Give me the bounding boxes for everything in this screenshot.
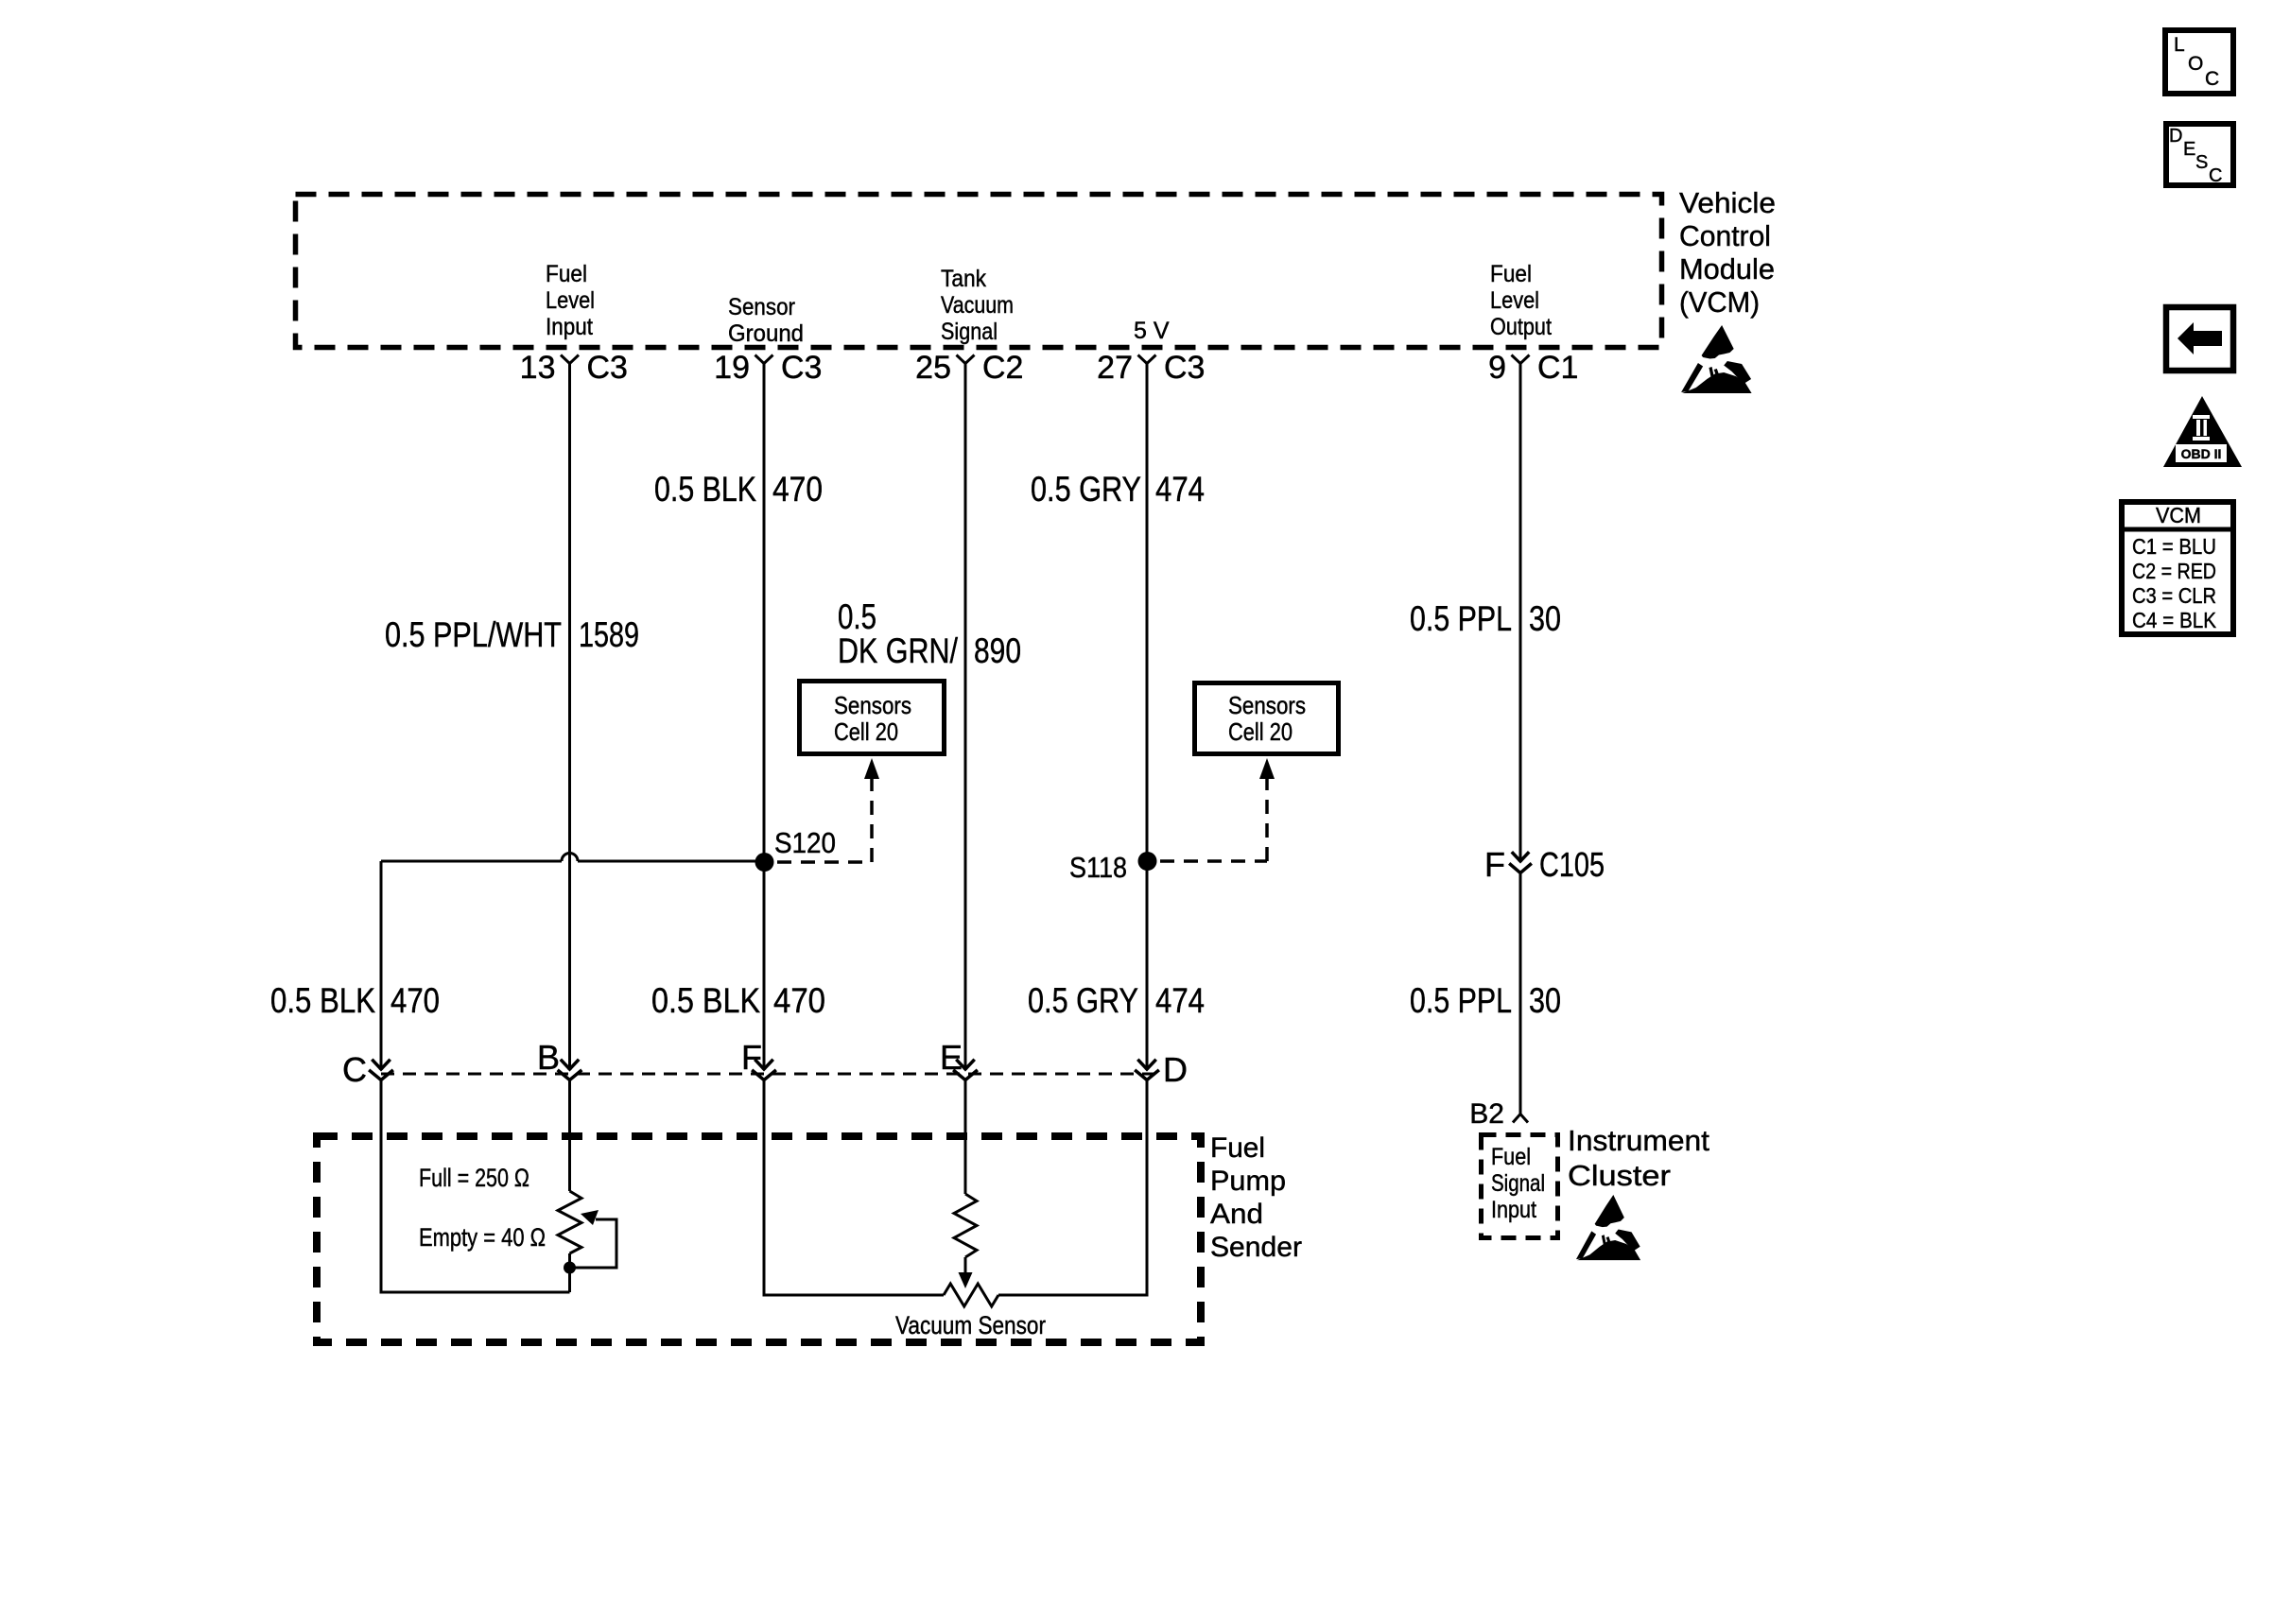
svg-text:470: 470 bbox=[390, 981, 440, 1020]
wire fuel level input 1589 upper segment bbox=[568, 363, 571, 1067]
svg-text:Sensors: Sensors bbox=[834, 691, 911, 719]
connector pin E bbox=[940, 1038, 977, 1080]
svg-text:F: F bbox=[1484, 845, 1505, 884]
label Sensor Ground (pin 19 port) bbox=[728, 294, 804, 347]
svg-text:0.5 PPL/WHT: 0.5 PPL/WHT bbox=[385, 615, 562, 654]
svg-text:C105: C105 bbox=[1539, 845, 1605, 884]
wire tank vacuum signal 890 upper segment bbox=[964, 363, 967, 1067]
svg-text:Module: Module bbox=[1679, 252, 1775, 285]
svg-text:C1 = BLU: C1 = BLU bbox=[2132, 534, 2216, 559]
label Vehicle Control Module (VCM) bbox=[1679, 186, 1776, 319]
wire 5V 474 upper segment bbox=[1146, 363, 1149, 1067]
svg-text:Input: Input bbox=[546, 314, 593, 340]
wire E leg into pump box bbox=[964, 1079, 967, 1194]
VCM connector color table bbox=[2119, 502, 2236, 634]
ESD symbol at VCM bbox=[1681, 325, 1752, 393]
svg-text:13: 13 bbox=[520, 350, 556, 386]
svg-text:0.5 GRY: 0.5 GRY bbox=[1028, 981, 1138, 1020]
svg-text:(VCM): (VCM) bbox=[1679, 285, 1760, 319]
svg-text:VCM: VCM bbox=[2156, 503, 2201, 527]
svg-text:Sender: Sender bbox=[1210, 1232, 1302, 1263]
label Empty = 40 ohm bbox=[419, 1223, 546, 1252]
label 0.5 GRY 474 (lower) bbox=[1028, 981, 1205, 1020]
svg-text:L: L bbox=[2174, 34, 2185, 56]
svg-text:C2 = RED: C2 = RED bbox=[2132, 559, 2216, 583]
wire sender resistor bottom bbox=[568, 1253, 571, 1292]
svg-text:Cluster: Cluster bbox=[1568, 1159, 1671, 1192]
label 0.5 BLK 470 (C leg) bbox=[270, 981, 440, 1020]
wire sensor ground 470 upper segment bbox=[763, 363, 766, 1067]
svg-text:Ground: Ground bbox=[728, 320, 804, 347]
svg-text:C2: C2 bbox=[982, 350, 1023, 386]
label Instrument Cluster bbox=[1568, 1124, 1709, 1192]
svg-text:890: 890 bbox=[974, 631, 1021, 670]
splice S120 bbox=[755, 826, 837, 872]
sender wiper arm bbox=[575, 1210, 616, 1268]
svg-text:0.5 BLK: 0.5 BLK bbox=[651, 981, 760, 1020]
sensors cell 20 box right bbox=[1195, 683, 1339, 754]
svg-text:0.5 PPL: 0.5 PPL bbox=[1410, 981, 1512, 1020]
svg-text:S118: S118 bbox=[1069, 851, 1127, 884]
svg-text:19: 19 bbox=[714, 350, 750, 386]
svg-text:S: S bbox=[2195, 152, 2208, 173]
svg-text:474: 474 bbox=[1155, 470, 1205, 509]
svg-text:Vehicle: Vehicle bbox=[1679, 186, 1776, 219]
svg-text:C4 = BLK: C4 = BLK bbox=[2132, 608, 2217, 632]
svg-text:Sensor: Sensor bbox=[728, 294, 795, 320]
svg-text:Signal: Signal bbox=[1491, 1170, 1545, 1197]
svg-text:Empty = 40 Ω: Empty = 40 Ω bbox=[419, 1223, 546, 1252]
wire horizontal from fuel sender C leg to S120 with hop bbox=[381, 854, 765, 862]
svg-text:D: D bbox=[2169, 126, 2182, 147]
wire fuel level output 30 lower segment bbox=[1519, 873, 1522, 1114]
svg-text:C3: C3 bbox=[781, 350, 822, 386]
svg-text:0.5 GRY: 0.5 GRY bbox=[1031, 470, 1141, 509]
label Fuel Level Input (pin 13 port) bbox=[546, 261, 595, 340]
icon OBD II triangle bbox=[2163, 396, 2242, 467]
pin 25 connector fork C2 bbox=[915, 350, 1023, 386]
label Fuel Level Output (pin 9 port) bbox=[1490, 261, 1552, 340]
label Full = 250 ohm bbox=[419, 1164, 529, 1192]
svg-text:9: 9 bbox=[1488, 350, 1506, 386]
connector pin C bbox=[342, 1050, 392, 1089]
svg-text:Full = 250 Ω: Full = 250 Ω bbox=[419, 1164, 529, 1192]
svg-text:And: And bbox=[1210, 1199, 1263, 1230]
sensors cell 20 box left bbox=[800, 682, 945, 754]
dashed reference arrow from S118 to sensors cell 20 bbox=[1160, 758, 1275, 861]
fuel pump connector dashed line bbox=[381, 1073, 1155, 1076]
label 0.5 GRY 474 (upper) bbox=[1031, 470, 1205, 509]
svg-text:F: F bbox=[741, 1038, 762, 1077]
svg-text:27: 27 bbox=[1097, 350, 1133, 386]
svg-text:D: D bbox=[1163, 1050, 1188, 1089]
pin 27 connector fork C3 bbox=[1097, 350, 1205, 386]
label 5 V (pin 27 port) bbox=[1134, 318, 1170, 344]
label Tank Vacuum Signal (pin 25 port) bbox=[941, 266, 1014, 345]
svg-text:E: E bbox=[2183, 139, 2195, 160]
wire F leg into pump box bbox=[764, 1079, 944, 1295]
label 0.5 PPL 30 (upper) bbox=[1410, 599, 1561, 638]
svg-text:Fuel: Fuel bbox=[1490, 261, 1532, 287]
wire B leg into sender bbox=[568, 1079, 571, 1191]
ESD symbol at instrument cluster bbox=[1576, 1195, 1640, 1260]
label 0.5 BLK 470 (sensor ground upper) bbox=[654, 470, 823, 509]
svg-text:0.5 BLK: 0.5 BLK bbox=[270, 981, 375, 1020]
svg-text:Input: Input bbox=[1491, 1197, 1536, 1223]
label Vacuum Sensor bbox=[895, 1311, 1046, 1339]
connector pin F bbox=[741, 1038, 775, 1080]
connector pin B bbox=[537, 1038, 581, 1080]
VCM module dashed box bbox=[296, 195, 1662, 348]
svg-text:Cell 20: Cell 20 bbox=[1228, 717, 1293, 746]
svg-text:C3: C3 bbox=[587, 350, 628, 386]
svg-text:O: O bbox=[2188, 53, 2203, 75]
svg-text:Level: Level bbox=[546, 287, 595, 314]
svg-text:Pump: Pump bbox=[1210, 1166, 1286, 1197]
svg-text:Vacuum Sensor: Vacuum Sensor bbox=[895, 1311, 1046, 1339]
svg-text:Fuel: Fuel bbox=[1491, 1144, 1531, 1170]
svg-text:Signal: Signal bbox=[941, 319, 998, 345]
svg-text:470: 470 bbox=[772, 470, 823, 509]
icon LOC box bbox=[2165, 30, 2233, 94]
label 0.5 DK GRN/ 890 bbox=[838, 597, 1021, 670]
resistor vacuum sensor wiper branch bbox=[954, 1194, 977, 1288]
label Fuel Pump And Sender bbox=[1210, 1132, 1302, 1263]
wire fuel level output 30 upper segment bbox=[1519, 363, 1522, 861]
svg-text:1589: 1589 bbox=[579, 615, 639, 654]
svg-text:Cell 20: Cell 20 bbox=[834, 717, 898, 746]
svg-text:B2: B2 bbox=[1469, 1098, 1504, 1130]
label 0.5 BLK 470 (F leg lower) bbox=[651, 981, 825, 1020]
connector pin D bbox=[1136, 1050, 1189, 1089]
pin 19 connector fork C3 bbox=[714, 350, 822, 386]
svg-text:470: 470 bbox=[773, 981, 825, 1020]
icon DESC box bbox=[2166, 124, 2233, 186]
svg-text:C: C bbox=[2209, 165, 2222, 186]
svg-text:0.5 BLK: 0.5 BLK bbox=[654, 470, 756, 509]
svg-text:Fuel: Fuel bbox=[1210, 1132, 1265, 1164]
svg-text:0.5: 0.5 bbox=[838, 597, 876, 636]
svg-text:Fuel: Fuel bbox=[546, 261, 587, 287]
wire fuel sender C leg 470 bbox=[380, 861, 383, 1067]
dashed reference arrow from S120 to sensors cell 20 bbox=[777, 758, 879, 862]
svg-text:DK GRN/: DK GRN/ bbox=[838, 631, 959, 670]
svg-text:B: B bbox=[537, 1038, 560, 1077]
svg-text:OBD II: OBD II bbox=[2181, 446, 2222, 461]
pin 9 connector fork C1 bbox=[1488, 350, 1578, 386]
svg-text:Sensors: Sensors bbox=[1228, 691, 1306, 719]
junction dot sender wiper bbox=[564, 1262, 576, 1274]
svg-text:0.5 PPL: 0.5 PPL bbox=[1410, 599, 1512, 638]
pin 13 connector fork C3 bbox=[520, 350, 628, 386]
svg-text:C: C bbox=[2205, 68, 2219, 90]
svg-text:E: E bbox=[940, 1038, 963, 1077]
in-line connector C105 pin F bbox=[1484, 845, 1605, 884]
svg-text:Level: Level bbox=[1490, 287, 1539, 314]
svg-text:30: 30 bbox=[1529, 981, 1561, 1020]
svg-text:5 V: 5 V bbox=[1134, 318, 1170, 344]
svg-text:474: 474 bbox=[1155, 981, 1205, 1020]
wire D leg into pump box bbox=[998, 1079, 1147, 1295]
svg-text:C: C bbox=[342, 1050, 367, 1089]
fuel pump and sender dashed box bbox=[317, 1136, 1201, 1342]
svg-text:C1: C1 bbox=[1537, 350, 1578, 386]
icon back arrow box bbox=[2166, 307, 2233, 371]
svg-text:C3 = CLR: C3 = CLR bbox=[2132, 583, 2216, 608]
resistor fuel level sender bbox=[558, 1191, 581, 1253]
wire sender bottom return bbox=[381, 1079, 570, 1292]
svg-text:25: 25 bbox=[915, 350, 951, 386]
label Fuel Signal Input bbox=[1491, 1144, 1545, 1223]
label 0.5 PPL/WHT 1589 bbox=[385, 615, 639, 654]
svg-text:Tank: Tank bbox=[941, 266, 986, 292]
svg-text:30: 30 bbox=[1529, 599, 1561, 638]
svg-text:Control: Control bbox=[1679, 219, 1771, 252]
svg-text:Instrument: Instrument bbox=[1568, 1124, 1709, 1157]
svg-text:Vacuum: Vacuum bbox=[941, 292, 1014, 319]
svg-text:S120: S120 bbox=[774, 826, 836, 859]
label 0.5 PPL 30 (lower) bbox=[1410, 981, 1561, 1020]
connector B2 fork bbox=[1469, 1098, 1528, 1130]
splice S118 bbox=[1069, 851, 1157, 884]
svg-text:Output: Output bbox=[1490, 314, 1552, 340]
instrument cluster fuel signal input dashed box bbox=[1482, 1135, 1558, 1238]
svg-text:C3: C3 bbox=[1164, 350, 1205, 386]
resistor vacuum sensor track bbox=[944, 1284, 998, 1306]
